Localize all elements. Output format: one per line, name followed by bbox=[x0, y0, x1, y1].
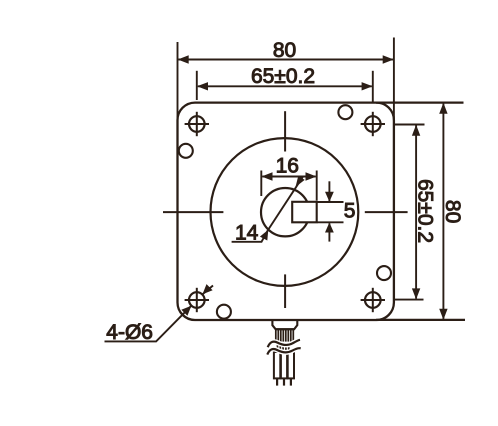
dim 65±0.2 right: dimension line with arrows bbox=[415, 126, 417, 299]
dim 80 top: extension lines bbox=[177, 42, 179, 118]
motor flange square outline 80x80 bbox=[178, 103, 394, 320]
dim 14: upper arrowhead bbox=[296, 176, 305, 187]
callout 4-O6: opposite arrowhead bbox=[203, 284, 213, 294]
mounting hole top-left bbox=[185, 112, 209, 136]
dim 5: extension lines bbox=[318, 201, 344, 203]
mounting hole bottom-right bbox=[361, 288, 385, 312]
callout 4-O6: opposite arrow tail bbox=[202, 286, 213, 295]
cable rib stubs between break lines bbox=[278, 345, 289, 350]
dim 14: leader and underline bbox=[232, 230, 268, 242]
svg-text:80: 80 bbox=[441, 200, 464, 223]
dim 14: diagonal diameter line bbox=[268, 176, 303, 230]
cable ribbed section bbox=[276, 329, 294, 341]
lead wires bbox=[274, 352, 280, 378]
centerline tick right bbox=[365, 211, 408, 213]
dim 14: lower arrowhead bbox=[260, 230, 268, 241]
small circle bottom-left bbox=[217, 305, 231, 319]
dim 65±0.2 top: extension lines bbox=[196, 71, 198, 100]
mounting hole bottom-left bbox=[185, 288, 209, 312]
break wave 2 bbox=[267, 348, 300, 354]
dim 65±0.2 right: extension lines bbox=[395, 124, 425, 126]
centerline tick bottom bbox=[284, 274, 286, 308]
shaft circle dia 14 bbox=[261, 188, 309, 236]
break wave 1 bbox=[268, 340, 300, 347]
dim 80 right: dimension line with arrows bbox=[442, 104, 444, 319]
svg-text:5: 5 bbox=[344, 200, 356, 223]
callout 4-O6: arrowhead at hole bbox=[181, 306, 191, 316]
dim 80 top: dimension line with arrows bbox=[179, 59, 393, 61]
cable collar bbox=[272, 321, 297, 329]
small circle left bbox=[179, 144, 193, 158]
callout 4-O6: underline and leader bbox=[105, 306, 192, 341]
dim 80 right: extension lines bbox=[376, 101, 464, 103]
svg-text:65±0.2: 65±0.2 bbox=[414, 179, 437, 243]
dim 65±0.2 top: dimension line with arrows bbox=[198, 85, 372, 87]
centerline tick top bbox=[284, 111, 286, 151]
dim 16: dimension line with arrows bbox=[262, 176, 315, 178]
mounting hole top-right bbox=[361, 112, 385, 136]
small circle top-right bbox=[338, 105, 352, 119]
dim 5: dimension line with arrows bbox=[328, 181, 330, 201]
svg-text:65±0.2: 65±0.2 bbox=[251, 65, 315, 88]
dim 16: extension lines bbox=[260, 171, 262, 197]
centerline tick left bbox=[163, 211, 223, 213]
svg-text:16: 16 bbox=[276, 155, 299, 178]
pilot boss circle bbox=[211, 138, 359, 286]
svg-text:80: 80 bbox=[273, 39, 296, 62]
wire tails bbox=[276, 378, 278, 385]
small circle right bbox=[377, 266, 391, 280]
key block bbox=[292, 202, 317, 223]
svg-text:14: 14 bbox=[235, 222, 259, 245]
